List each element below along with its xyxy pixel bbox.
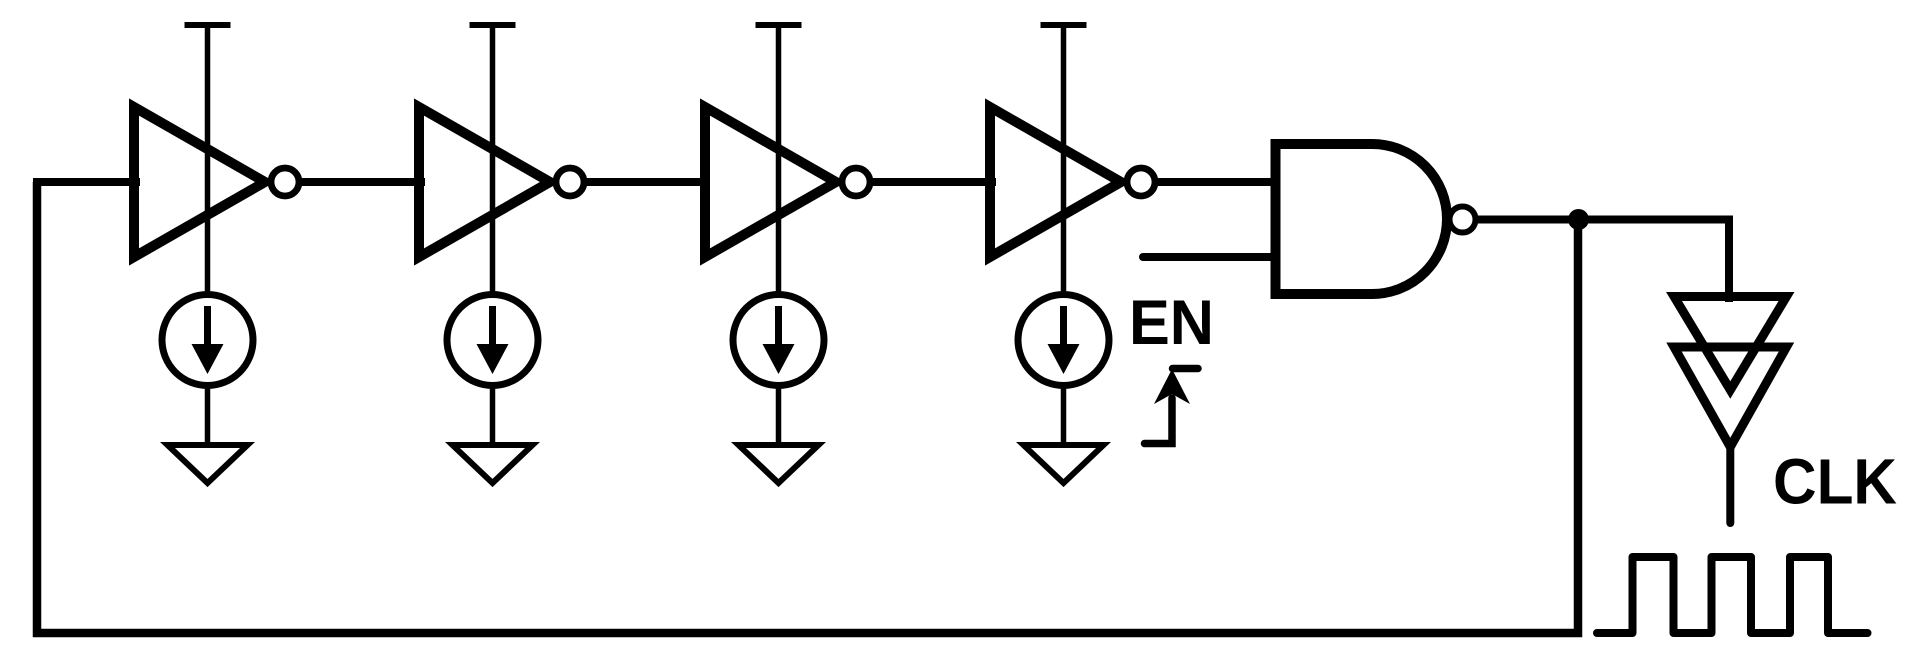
- inverter U1: [134, 107, 265, 257]
- bubble U3 output: [842, 168, 870, 196]
- wire NAND output to buffer: [1478, 220, 1729, 303]
- ground (stage 3): [739, 445, 819, 483]
- svg-text:EN: EN: [1129, 288, 1214, 358]
- buffer U6 triangle A: [1674, 297, 1787, 391]
- node (junction dot): [1568, 209, 1589, 230]
- ground (stage 4): [1024, 445, 1104, 483]
- clock waveform: [1597, 557, 1868, 633]
- wire I3 to ground: [776, 384, 782, 446]
- wire I2 to ground: [490, 384, 496, 446]
- ground (stage 1): [168, 445, 248, 483]
- wire VDD to current source (stage 3): [776, 25, 782, 296]
- current source I4 arrow: [1060, 306, 1067, 352]
- svg-text:CLK: CLK: [1773, 446, 1897, 518]
- wire stage3 to stage4: [869, 178, 996, 186]
- bubble U5 output: [1450, 207, 1476, 233]
- ground (stage 2): [453, 445, 533, 483]
- inverter U3: [705, 107, 836, 257]
- current source I3 circle: [733, 295, 824, 386]
- inverter U2: [419, 107, 550, 257]
- current source I3 arrow: [775, 306, 782, 352]
- current source I4 circle: [1018, 295, 1109, 386]
- wire feedback loop (NAND output node down, bottom rail, left rail up to INV1 input): [37, 182, 1578, 633]
- current source I2 circle: [447, 295, 538, 386]
- wire stage1 to stage2: [298, 178, 425, 186]
- NAND gate U5 body: [1276, 144, 1448, 294]
- wire VDD to current source (stage 2): [490, 25, 496, 296]
- rising-edge symbol (EN) step: [1145, 369, 1199, 444]
- current source I2 arrow: [489, 306, 496, 352]
- buffer U6 triangle B: [1674, 347, 1787, 447]
- wire input to INV1: [33, 178, 140, 186]
- bubble U4 output: [1127, 168, 1155, 196]
- wire EN to NAND input B: [1143, 253, 1280, 261]
- bubble U2 output: [556, 168, 584, 196]
- rising-edge symbol (EN) arrowhead: [1154, 369, 1190, 404]
- bubble U1 output: [271, 168, 299, 196]
- VDD supply bar (stage 1): [185, 22, 231, 28]
- wire I4 to ground: [1061, 384, 1067, 446]
- current source I1 arrow: [204, 306, 211, 352]
- wire stage4 to NAND input A: [1154, 178, 1280, 186]
- VDD supply bar (stage 3): [756, 22, 802, 28]
- wire I1 to ground: [205, 384, 211, 446]
- VDD supply bar (stage 4): [1041, 22, 1087, 28]
- wire stage2 to stage3: [583, 178, 710, 186]
- wire VDD to current source (stage 1): [205, 25, 211, 296]
- wire buffer output (CLK stub): [1726, 445, 1734, 523]
- inverter U4: [990, 107, 1121, 257]
- wire VDD to current source (stage 4): [1061, 25, 1067, 296]
- current source I1 circle: [162, 295, 253, 386]
- VDD supply bar (stage 2): [470, 22, 516, 28]
